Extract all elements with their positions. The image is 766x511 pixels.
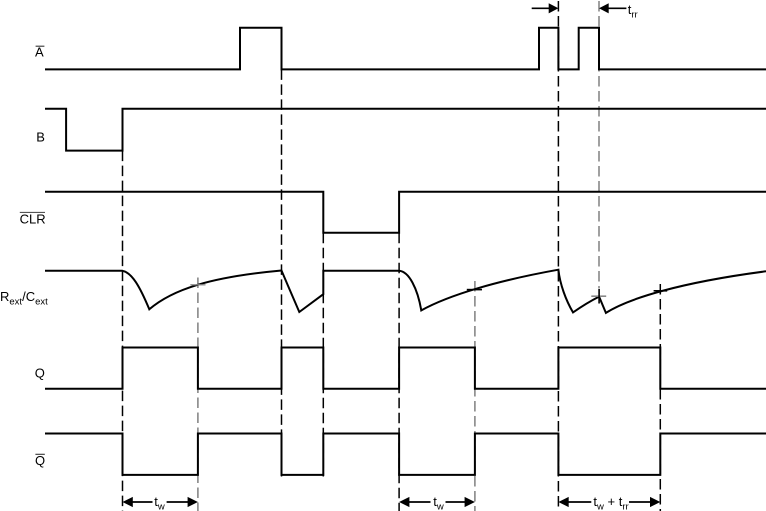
dashed guide line at x=660.3 (end of tw+trr) xyxy=(659,284,661,511)
signal Q-bar waveform xyxy=(45,434,766,475)
bottom tw arrow 1 (122.5 to 197.9) xyxy=(123,497,133,507)
top arrow pointing left at x=599 with trr label xyxy=(599,3,609,13)
signal Q waveform xyxy=(45,348,766,389)
dashed guide line at x=599 (A pulse 3 fall / retrigger, gray) xyxy=(598,1,600,289)
svg-text:Q: Q xyxy=(35,365,45,380)
Rext/Cext exponential waveform xyxy=(45,270,766,313)
signal A waveform xyxy=(45,28,766,70)
threshold tick at x=660.3 (black) xyxy=(654,290,668,292)
dashed guide line at x=122.5 (B rising edge / trigger 1) xyxy=(122,151,124,511)
threshold tick at x=474.9 (black) xyxy=(467,289,482,291)
dashed guide line at x=558.4 (A pulse 2 fall / trigger 4) xyxy=(557,1,559,511)
dashed guide line at x=474.9 (end of tw 3, gray) xyxy=(474,281,476,511)
signal B waveform xyxy=(45,109,766,151)
bottom tw+trr arrow (558.4 to 660.3) xyxy=(558,497,568,507)
svg-text:Q: Q xyxy=(35,453,45,468)
bottom tw arrow 2 (399.1 to 474.9) xyxy=(399,497,409,507)
dashed guide line at x=197.9 (end of first tw, gray) xyxy=(197,278,199,511)
signal CLR waveform xyxy=(45,192,766,233)
threshold tick at x=197.9 (gray) xyxy=(190,284,205,286)
retrigger cross at x=599 (gray horizontal + black vertical) xyxy=(591,295,606,297)
dashed guide line at x=399.1 (CLR rise / trigger 3) xyxy=(398,233,400,511)
dashed guide line at x=281.5 (A pulse fall / retrigger) xyxy=(281,69,283,476)
svg-text:B: B xyxy=(36,129,45,144)
svg-text:CLR: CLR xyxy=(20,211,46,226)
top arrow pointing right at x=558.4 xyxy=(532,7,551,9)
dashed guide line at x=323.3 (CLR fall) xyxy=(322,233,324,477)
